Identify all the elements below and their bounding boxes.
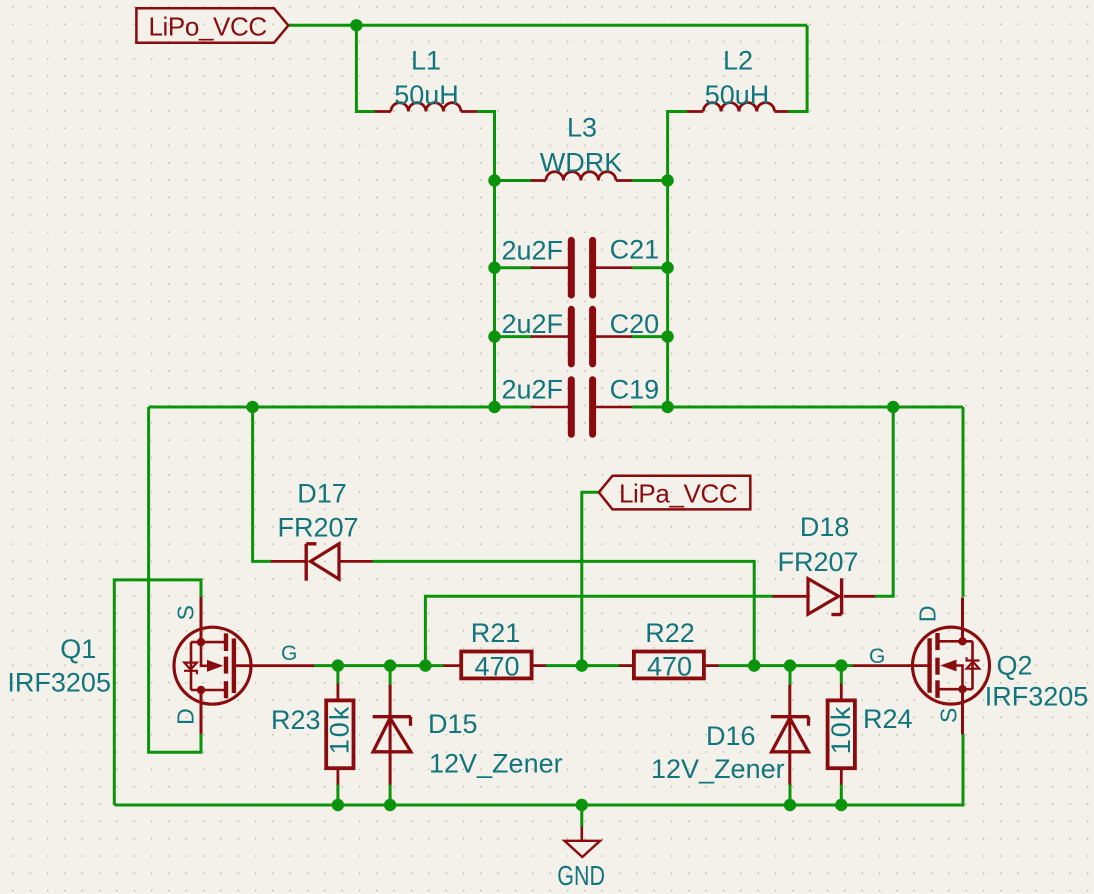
label R21 ref bbox=[471, 618, 521, 648]
node gate D17 tap bbox=[748, 659, 760, 671]
label R23 value 10k bbox=[324, 705, 354, 755]
wire C20 left lead bbox=[495, 335, 533, 338]
pin label Q1 D bbox=[173, 708, 199, 725]
svg-text:D15: D15 bbox=[428, 709, 478, 739]
inductor L2 bbox=[687, 103, 788, 112]
wire top horizontal LiPo_VCC to right rail bbox=[288, 24, 807, 27]
label L3 ref bbox=[567, 112, 597, 142]
svg-text:12V_Zener: 12V_Zener bbox=[651, 754, 785, 784]
wire left rail to Q1 drain bbox=[149, 407, 201, 752]
label D18 value FR207 bbox=[777, 547, 858, 577]
label Q1 ref bbox=[60, 634, 96, 664]
svg-text:D: D bbox=[915, 605, 941, 622]
label Q2 ref bbox=[996, 651, 1032, 681]
node bus C19 left bbox=[488, 401, 500, 413]
label D15 ref bbox=[428, 709, 478, 739]
label D16 value 12V_Zener bbox=[651, 754, 785, 784]
node gate D15 bbox=[384, 659, 396, 671]
wire L3 left lead bbox=[495, 179, 532, 182]
svg-text:Q2: Q2 bbox=[996, 651, 1032, 681]
svg-text:LiPo_VCC: LiPo_VCC bbox=[149, 12, 267, 42]
svg-text:C21: C21 bbox=[610, 235, 660, 265]
wire L2 left to right column rail down to bus bbox=[668, 112, 688, 408]
zener diode D15 bbox=[373, 685, 411, 785]
label D15 value 12V_Zener bbox=[429, 748, 563, 778]
label L3 value WDRK bbox=[540, 147, 623, 177]
svg-text:C19: C19 bbox=[610, 374, 660, 404]
wire gate row segment 3 bbox=[719, 664, 854, 667]
node C21 left bbox=[488, 262, 500, 274]
svg-text:L3: L3 bbox=[567, 112, 597, 142]
node bottom R23 bbox=[332, 799, 344, 811]
wire LiPa_VCC drop bbox=[582, 492, 599, 665]
wire gate row segment 1 bbox=[314, 664, 444, 667]
pin label Q2 G bbox=[869, 645, 885, 668]
node gate R24 bbox=[835, 659, 847, 671]
label L1 value 50uH bbox=[394, 80, 459, 110]
node gate R23 bbox=[332, 659, 344, 671]
label C21 value 2u2F bbox=[501, 235, 563, 265]
transistor Q1 bbox=[174, 597, 314, 734]
label R21 value 470 bbox=[474, 651, 519, 681]
wire L1 right to left column rail down to bus bbox=[477, 112, 495, 408]
wire D15 drop bbox=[389, 666, 392, 805]
node bottom GND bbox=[576, 799, 588, 811]
node L3 left bbox=[488, 174, 500, 186]
node bus D18 rail bbox=[887, 401, 899, 413]
ground bbox=[565, 827, 601, 858]
resistor R21 bbox=[444, 652, 547, 679]
label GND bbox=[557, 861, 605, 891]
svg-text:50uH: 50uH bbox=[394, 80, 459, 110]
wire main bus row with C19 bbox=[149, 406, 963, 409]
wire R24 drop lower bbox=[840, 784, 843, 805]
label R22 ref bbox=[645, 618, 695, 648]
inductor L3 bbox=[531, 172, 632, 181]
svg-text:GND: GND bbox=[557, 861, 605, 891]
capacitor C20 bbox=[531, 309, 632, 364]
svg-text:FR207: FR207 bbox=[277, 513, 358, 543]
wire R23 drop lower bbox=[336, 784, 339, 805]
inductor L1 bbox=[375, 103, 477, 112]
label Q1 value IRF3205 bbox=[7, 668, 111, 698]
node gate D18 tap bbox=[419, 659, 431, 671]
wire R24 drop upper bbox=[840, 666, 843, 684]
svg-text:G: G bbox=[281, 642, 297, 665]
svg-text:12V_Zener: 12V_Zener bbox=[429, 748, 563, 778]
diode D17 bbox=[271, 544, 373, 581]
wire Q2 drain rail bbox=[962, 407, 965, 597]
capacitor C19 bbox=[531, 380, 632, 435]
resistor R23 bbox=[326, 684, 353, 785]
wire Q1 source loop bbox=[114, 580, 201, 805]
pin label Q1 S bbox=[173, 605, 199, 620]
svg-text:2u2F: 2u2F bbox=[501, 309, 563, 339]
node bottom D15 bbox=[384, 799, 396, 811]
svg-text:R22: R22 bbox=[645, 618, 695, 648]
svg-text:S: S bbox=[936, 708, 962, 723]
global label LiPa_VCC bbox=[599, 476, 751, 510]
svg-text:10k: 10k bbox=[826, 705, 856, 755]
label D17 ref bbox=[297, 479, 347, 509]
svg-text:LiPa_VCC: LiPa_VCC bbox=[619, 478, 737, 508]
node C21 right bbox=[661, 262, 673, 274]
node bottom R24 bbox=[835, 799, 847, 811]
pin label Q2 S bbox=[936, 708, 962, 723]
svg-text:Q1: Q1 bbox=[60, 634, 96, 664]
svg-text:470: 470 bbox=[474, 651, 519, 681]
node bus D17 rail bbox=[246, 401, 258, 413]
wire L2 right rail bbox=[788, 25, 807, 111]
wire D18 cathode to bus rail bbox=[875, 407, 894, 596]
node gate D16 bbox=[784, 659, 796, 671]
wire C20 right lead bbox=[631, 335, 668, 338]
label L2 ref bbox=[723, 45, 753, 75]
wire D17 cathode rail from bus bbox=[253, 407, 272, 561]
node bus C19 right bbox=[661, 401, 673, 413]
diode D18 bbox=[773, 578, 875, 614]
wire C21 left lead bbox=[495, 266, 533, 269]
wire L3 right lead bbox=[632, 179, 668, 182]
svg-text:2u2F: 2u2F bbox=[501, 374, 563, 404]
node L3 right bbox=[661, 174, 673, 186]
wire D17 anode to Q2 gate rail bbox=[372, 561, 754, 665]
label R23 ref bbox=[271, 705, 321, 735]
pin label Q1 G bbox=[281, 642, 297, 665]
pin label Q2 D bbox=[915, 605, 941, 622]
transistor Q2 bbox=[853, 597, 990, 734]
svg-text:D: D bbox=[173, 708, 199, 725]
svg-text:2u2F: 2u2F bbox=[501, 235, 563, 265]
label C20 ref bbox=[610, 309, 660, 339]
svg-text:S: S bbox=[173, 605, 199, 620]
svg-text:L2: L2 bbox=[723, 45, 753, 75]
svg-text:R21: R21 bbox=[471, 618, 521, 648]
label L2 value 50uH bbox=[705, 80, 770, 110]
node gate LiPa bbox=[576, 659, 588, 671]
svg-text:D17: D17 bbox=[297, 479, 347, 509]
svg-text:R24: R24 bbox=[863, 704, 913, 734]
label R24 value 10k bbox=[826, 705, 856, 755]
wire bottom bus bbox=[114, 734, 963, 805]
capacitor C21 bbox=[531, 240, 632, 295]
svg-text:WDRK: WDRK bbox=[540, 147, 623, 177]
label D17 value FR207 bbox=[277, 513, 358, 543]
node C20 right bbox=[661, 330, 673, 342]
svg-text:G: G bbox=[869, 645, 885, 668]
resistor R24 bbox=[828, 684, 855, 785]
svg-text:C20: C20 bbox=[610, 309, 660, 339]
label C19 ref bbox=[610, 374, 660, 404]
svg-text:IRF3205: IRF3205 bbox=[985, 682, 1089, 712]
resistor R22 bbox=[619, 652, 719, 679]
svg-text:50uH: 50uH bbox=[705, 80, 770, 110]
svg-text:FR207: FR207 bbox=[777, 547, 858, 577]
svg-text:10k: 10k bbox=[324, 705, 354, 755]
node bottom D16 bbox=[784, 799, 796, 811]
global label LiPo_VCC bbox=[136, 8, 288, 43]
label Q2 value IRF3205 bbox=[985, 682, 1089, 712]
label C20 value 2u2F bbox=[501, 309, 563, 339]
svg-text:L1: L1 bbox=[411, 45, 441, 75]
label C19 value 2u2F bbox=[501, 374, 563, 404]
svg-text:R23: R23 bbox=[271, 705, 321, 735]
label D18 ref bbox=[800, 512, 850, 542]
label R24 ref bbox=[863, 704, 913, 734]
wire gate row segment 2 bbox=[546, 664, 620, 667]
label R22 value 470 bbox=[647, 651, 692, 681]
wire GND stub bbox=[580, 805, 583, 827]
node C20 left bbox=[488, 330, 500, 342]
svg-text:IRF3205: IRF3205 bbox=[7, 668, 111, 698]
node top wire junction bbox=[350, 19, 362, 31]
svg-text:D16: D16 bbox=[706, 721, 756, 751]
wire C21 right lead bbox=[631, 266, 668, 269]
wire R23 drop upper bbox=[336, 666, 339, 684]
wire D16 drop bbox=[789, 666, 792, 805]
label C21 ref bbox=[610, 235, 660, 265]
zener diode D16 bbox=[771, 685, 809, 785]
svg-text:470: 470 bbox=[647, 651, 692, 681]
label L1 ref bbox=[411, 45, 441, 75]
wire Q1 gate rail to D18 anode bbox=[425, 596, 773, 665]
label D16 ref bbox=[706, 721, 756, 751]
svg-text:D18: D18 bbox=[800, 512, 850, 542]
wire L1 left rail bbox=[356, 25, 375, 111]
